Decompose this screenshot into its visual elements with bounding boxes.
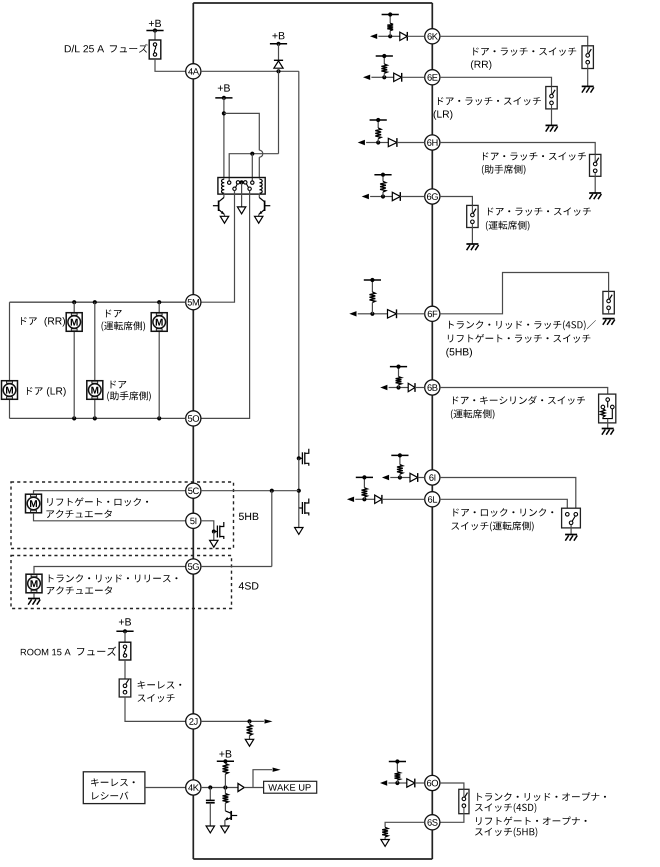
wire 4A feed down to FETs [298,71,300,458]
dashed box liftgate lock actuator (5HB) [11,482,234,549]
control unit box [193,2,432,4]
pullup/diode input network [384,76,393,78]
junction at diode [276,69,280,73]
wire fuse to pin 4A [155,59,186,71]
junction [93,300,97,304]
diode [375,495,382,503]
wire 4A bus [201,70,299,72]
junction [157,300,161,304]
label door latch switch RR [473,47,576,55]
label liftgate lock actuator [47,497,148,506]
node 6B [425,380,440,395]
pullup/diode input network [397,782,406,784]
node 6I [425,470,440,485]
wire to contact pin [251,154,253,181]
wire contact to 5O [201,190,250,418]
+B supply for D/L fuse [149,20,161,27]
label key cylinder switch [453,396,585,405]
diode D (clamp to +B) [278,44,280,61]
wire 6H to switch [440,143,595,155]
pullup/diode input network [383,196,392,198]
label door LR [27,387,43,395]
buffer U4 [238,783,244,791]
door lock link switch (driver) [562,508,581,528]
junction [208,785,212,789]
wire to ground [587,69,589,87]
door latch switch (LR) [546,87,557,109]
pullup/diode input network [372,313,387,315]
+B supply ROOM fuse [119,618,131,625]
wire FET to output arrow [298,508,300,528]
node 5C [186,483,201,498]
trunk/liftgate opener switch [459,789,469,813]
motor liftgate lock actuator [26,494,42,513]
FET U2 [301,502,303,514]
diode [400,32,408,40]
wire actuator to 5I [34,513,186,521]
wire buffer out [244,787,263,789]
node 5I [186,513,201,528]
wire +B to relay coil L [223,98,225,179]
wire to ground [471,228,473,245]
node 2J [186,714,201,729]
wire branch to wake-up arrow [253,770,272,788]
trunk/liftgate latch switch [603,291,614,314]
dashed box trunk lid release actuator (4SD) [11,556,232,609]
wire 5G right [201,566,272,568]
motor door driver [151,313,167,332]
capacitor C [209,788,211,801]
wire driver branch [158,302,160,313]
wire RR branch [73,302,75,313]
diode [394,73,402,81]
transistor Q1 (lock) [223,194,225,198]
node 5O [186,411,201,426]
node 6G [425,189,440,204]
relay coil L [222,179,225,183]
wire receiver to 4K [145,787,186,789]
motor door RR [66,313,82,332]
relay contact pins [228,181,231,184]
6S internal resistor to output [385,822,425,827]
node 6S [425,815,440,830]
motor door LR [2,381,18,400]
motor trunk lid release actuator [26,574,42,593]
door key cylinder switch (driver) [599,394,616,423]
door latch switch (driver) [467,205,478,227]
fuse D/L 25A [149,40,161,59]
wire to ground [594,176,596,193]
wire 6K to switch [440,36,588,46]
diode [388,310,397,318]
wire down to 5G row [271,491,273,567]
wire [298,458,300,508]
FET U1 [297,456,301,460]
wire contact to 5M [201,190,235,302]
ground [603,318,615,320]
relay moving contacts [233,187,236,190]
label door lock link switch [453,508,553,517]
WAKE UP box [264,781,317,793]
wire +B to fuse [154,31,156,41]
pullup resistor to +B [224,774,226,788]
ground [582,85,594,87]
label trunk lid opener switch [477,792,606,801]
label door latch switch LR [438,97,541,105]
diode [392,192,400,200]
junction [72,300,76,304]
label liftgate opener switch [476,817,586,826]
wire clamp node down to relay feed [278,71,280,153]
label keyless switch [138,681,182,689]
label door RR [21,317,37,325]
node 5M [186,295,201,310]
diode [410,473,418,481]
node 4K [186,780,201,795]
ground [589,192,601,194]
ground [546,124,558,126]
ground [466,243,478,245]
pullup/diode input network [400,477,410,479]
wire actuator to 5C [34,491,186,495]
node 6E [425,70,440,85]
wire [124,631,126,642]
node 6L [425,492,440,507]
ground under actuator [33,593,35,599]
wire fuse to keyless switch [124,660,126,679]
junction [270,489,274,493]
door latch switch (RR) [582,46,593,69]
relay coil R [260,179,263,183]
wire to relay coil R (hops over contact feed) [224,113,259,150]
node 6O [425,775,440,790]
label ROOM 15 A fuse [21,649,71,656]
keyless receiver box [83,772,145,804]
wire 6E to switch [440,77,552,86]
pullup/diode input network [378,142,388,144]
ground [565,534,577,536]
wire 5C to FET junction [201,490,299,492]
pullup/diode input network [399,387,409,389]
label door latch switch passenger [483,152,586,160]
wire 5I to FET [201,521,214,532]
wire keyless switch to 2J [125,697,186,721]
wire relay contact feed [229,154,278,181]
label door passenger [111,381,127,389]
node 6F [425,306,440,321]
pulldown resistor R [249,721,251,724]
junction [222,111,226,115]
wire to ground [551,109,553,126]
wire actuator to 5G [34,567,186,575]
label trunk lid latch [449,320,596,330]
wire LR branch [9,302,11,381]
motor door passenger [87,381,103,400]
transistor Q3 [224,788,226,794]
diode [408,383,415,391]
wire passenger branch [94,302,96,381]
+B supply for relays [218,84,230,91]
junction [250,152,254,156]
pullup/diode input network [364,498,374,500]
door motor bus top [10,301,186,303]
wire 6O to opener switch [440,783,464,789]
wire 6I to link switch [440,478,576,509]
relay block (lock/unlock relays) [218,178,265,195]
+B clamp supply [272,32,284,39]
junction [247,719,251,723]
label D/L 25 A fuse [65,45,104,53]
node 6K [425,29,440,44]
node 4A [186,64,201,79]
wire 2J to arrow [201,720,264,722]
label 5HB [239,513,259,520]
transistor Q2 (unlock) [258,194,260,198]
pullup/diode input network [390,35,400,37]
door motor bus bottom [10,417,186,419]
fuse ROOM 15A [119,642,131,660]
wire 6L to link switch [440,499,567,508]
label door driver [106,310,122,318]
door latch switch (passenger) [590,154,601,176]
FET U3 [212,530,216,534]
relay common output [241,182,243,207]
label 4SD [239,582,259,589]
wire 6F to latch switch [440,273,609,314]
ground [602,428,614,430]
label trunk lid release actuator [49,574,178,583]
wire 4K to buffer [201,787,238,789]
wire 6B to key cylinder switch [440,388,608,395]
wire switch to 6S [440,814,464,823]
diode [388,138,397,146]
junction 5C feed [297,489,301,493]
label keyless receiver [91,778,135,786]
node 5G [186,559,201,574]
label door latch switch driver [488,207,591,215]
node 6H [425,135,440,150]
keyless switch [119,679,131,697]
diode [407,779,415,787]
junction [223,785,227,789]
wire 6G to switch [440,197,473,206]
